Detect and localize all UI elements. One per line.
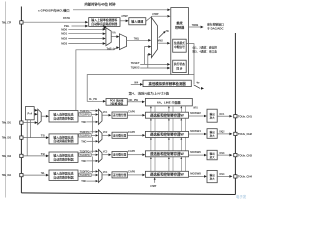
wire TGDFPO row4 [91, 174, 95, 176]
box output amp row3 [207, 150, 217, 160]
mux A1 input select [38, 109, 42, 124]
stub wire under row4 driver [154, 177, 156, 183]
svg-text:TINL_CTP: TINL_CTP [2, 20, 11, 24]
wire MD0 to mux M1 [68, 28, 102, 30]
svg-text:MD0: MD0 [61, 27, 67, 31]
svg-text:TINx_CH4: TINx_CH4 [2, 173, 11, 177]
svg-text:差分微分器: 差分微分器 [113, 153, 126, 157]
svg-text:递选板和控制寄存器W: 递选板和控制寄存器W [150, 132, 185, 137]
svg-text:VA: VA [112, 30, 115, 34]
mux M2 [119, 34, 126, 50]
svg-text:CAP6: CAP6 [128, 110, 135, 114]
box POS [106, 99, 127, 106]
svg-text:于 DAC/ADC: 于 DAC/ADC [207, 27, 223, 31]
box U7 exec status [173, 60, 187, 72]
svg-text:控制器: 控制器 [175, 24, 185, 29]
svg-text:输出: 输出 [210, 130, 216, 134]
box U2 input rate [129, 18, 146, 25]
wire U5 to serial interface [189, 26, 201, 28]
wire PBL to detector U1 [72, 25, 86, 27]
left frame line [5, 2, 7, 198]
svg-text:TB: TB [41, 134, 45, 138]
wire MD3 to mux M1 [68, 43, 102, 45]
branch TESET up to mux M3 [145, 47, 149, 65]
wire mux B1 to diff box [102, 114, 108, 116]
svg-text:MW2: MW2 [158, 39, 163, 43]
branch TQMSG up to mux M3 [147, 54, 150, 68]
wire MD1 to mux M1 [68, 33, 102, 35]
adjust arrow lower [194, 85, 201, 89]
wire driver to output row3 [189, 154, 204, 156]
box P source [25, 107, 34, 120]
wire TQMSG to control box [140, 67, 167, 69]
wire V1 P box to row3 [26, 120, 28, 156]
wire TGDFPO row2 [91, 134, 95, 136]
svg-text:输出: 输出 [210, 151, 216, 155]
svg-text:s GPIO/SPI与MCU接口: s GPIO/SPI与MCU接口 [38, 7, 70, 12]
wire POS to LINE box [127, 101, 142, 103]
adjust arrow into U1 [105, 27, 110, 31]
wire output to pin row4 [217, 175, 229, 177]
svg-text:VC2: VC2 [103, 130, 108, 134]
box U1 sample-rate detector [89, 18, 120, 27]
wire TSDFPO row4 [90, 170, 95, 172]
wire P to mux A1 top [33, 109, 36, 111]
box differential row2 [112, 132, 127, 138]
svg-text:TESET: TESET [131, 61, 140, 65]
svg-text:TNC: TNC [81, 159, 86, 163]
svg-text:TGDFPO: TGDFPO [80, 153, 91, 157]
pin TOUx_CH4 [234, 175, 237, 178]
svg-text:自动旁路控制器: 自动旁路控制器 [53, 157, 73, 162]
svg-text:自动静音旁路控制器: 自动静音旁路控制器 [91, 21, 117, 26]
wire TNC row4 [87, 180, 96, 182]
box driver register row1 [145, 112, 188, 118]
svg-text:放大: 放大 [209, 155, 216, 159]
wire TGDFPO row3 [91, 154, 95, 156]
svg-text:MD3: MD3 [61, 42, 67, 46]
svg-text:TGDFPO: TGDFPO [80, 133, 91, 137]
svg-text:MD2: MD2 [61, 37, 67, 41]
svg-text:OS4: OS4 [219, 172, 224, 176]
box output amp row1 [207, 109, 217, 122]
box output amp row2 [207, 129, 217, 139]
bus verticals between driver rows [150, 106, 152, 112]
svg-text:ATMP: ATMP [152, 12, 159, 16]
wire stub down from node [193, 75, 195, 84]
svg-text:TOUx_CH3: TOUx_CH3 [238, 153, 252, 157]
wire mux B2 to diff box [102, 134, 108, 136]
svg-text:RSTB: RSTB [63, 16, 70, 20]
wire diff to driver row2 [127, 134, 142, 136]
svg-text:CAP8: CAP8 [128, 169, 135, 173]
svg-text:TBL: TBL [41, 171, 45, 175]
svg-text:差分微分器: 差分微分器 [113, 133, 126, 137]
svg-text:电子发: 电子发 [236, 194, 247, 199]
box selector row4 [49, 170, 78, 180]
right output bus [234, 33, 236, 195]
mux B4 [98, 170, 102, 183]
svg-text:递选板和控制寄存器W: 递选板和控制寄存器W [150, 151, 185, 156]
svg-text:MOSW2: MOSW2 [190, 111, 201, 115]
bottom bus wire [21, 193, 235, 195]
wire diff to driver row3 [127, 154, 142, 156]
svg-text:ATMP: ATMP [121, 14, 128, 18]
wire mux B3 to diff box [102, 154, 108, 156]
svg-text:TINx_CH2: TINx_CH2 [2, 136, 11, 140]
svg-text:MD1: MD1 [61, 32, 67, 36]
box differential row3 [112, 152, 127, 158]
svg-text:6A、LINE 介面器: 6A、LINE 介面器 [157, 100, 182, 105]
mux B3 [98, 149, 102, 162]
svg-text:内部时钟与40位 时钟: 内部时钟与40位 时钟 [85, 2, 117, 7]
wire TGDFPO row1 [91, 114, 95, 116]
arrow into detector D1 [131, 83, 140, 85]
wire M2 to M3 [127, 39, 149, 41]
svg-text:VC4: VC4 [103, 170, 108, 174]
boxed label TGDFPO row3 [79, 153, 91, 157]
svg-text:TINx_CH1: TINx_CH1 [2, 121, 11, 125]
svg-text:TOUx_CH1: TOUx_CH1 [238, 114, 252, 118]
svg-text:差分微分器: 差分微分器 [113, 173, 126, 177]
svg-text:自动旁路控制器: 自动旁路控制器 [53, 116, 73, 121]
svg-text:TNC: TNC [81, 120, 86, 124]
mux M3 [151, 17, 157, 57]
svg-text:7W: 7W [166, 29, 169, 33]
box U5 trigger controller [171, 8, 189, 75]
svg-text:TGDFPO: TGDFPO [80, 173, 91, 177]
svg-text:同 步: 同 步 [176, 66, 182, 70]
wire driver to output row2 [189, 133, 204, 135]
wire pin row4 to selector [23, 174, 46, 176]
svg-text:放大: 放大 [209, 133, 216, 137]
svg-text:W01: W01 [193, 106, 198, 110]
wire TINL_CTP to detector U1 [23, 21, 85, 23]
svg-text:差分微分器: 差分微分器 [113, 113, 126, 117]
wire TESET to control box [140, 63, 167, 65]
wire output to pin row1 [217, 115, 229, 117]
svg-text:信息模式: 信息模式 [174, 41, 185, 45]
svg-text:递选板和控制寄存器W: 递选板和控制寄存器W [150, 172, 185, 177]
box driver register row4 [145, 171, 188, 177]
wire TNC row2 [87, 140, 96, 142]
wire driver to output row4 [189, 175, 204, 177]
svg-text:第4、消除4成为上N寸2值: 第4、消除4成为上N寸2值 [129, 92, 170, 96]
svg-text:CAP6: CAP6 [128, 130, 135, 134]
svg-text:自动旁路控制器: 自动旁路控制器 [53, 138, 73, 143]
wire M3 to register box U6 [158, 42, 167, 44]
wire mux B4 to diff box [102, 174, 108, 176]
wire MD2 to mux M1 [68, 38, 102, 40]
box output amp row4 [207, 170, 217, 182]
adjust arrow across M3 [159, 32, 164, 37]
svg-text:制3、4通道：串口态: 制3、4通道：串口态 [193, 50, 218, 54]
box D2 LINE interface [145, 98, 192, 106]
box selector row2 [49, 134, 78, 144]
svg-text:输出: 输出 [210, 112, 216, 116]
svg-text:CAP6: CAP6 [128, 149, 135, 153]
svg-text:TQMSG: TQMSG [131, 66, 140, 70]
wire diff to driver row1 [127, 114, 142, 116]
wire P to mux A1 mid [33, 113, 36, 115]
pin TOUx_CH1 [234, 115, 237, 118]
svg-text:TB: TB [41, 152, 45, 156]
svg-text:递选板和控制寄存器W: 递选板和控制寄存器W [150, 112, 185, 117]
svg-text:DIQ2: DIQ2 [219, 130, 224, 134]
svg-text:中断信号: 中断信号 [174, 45, 185, 49]
wire TSDFPO row1 [90, 110, 95, 112]
svg-text:MOSW6: MOSW6 [190, 150, 201, 154]
mux M1 [106, 28, 111, 46]
box D1 sample freq detector [143, 80, 191, 86]
svg-text:TMQ: TMQ [134, 36, 140, 40]
svg-text:W4: W4 [134, 81, 138, 85]
wire U2 to control box U5 [146, 16, 167, 21]
boxed label TGDFPO row1 [79, 113, 91, 117]
svg-text:输入调速: 输入调速 [131, 19, 143, 24]
box U6 info mode register [173, 39, 187, 52]
mux B1 [98, 109, 102, 124]
svg-text:2值/模-模值: 2值/模-模值 [110, 101, 123, 105]
wire TNC row1 [87, 121, 96, 123]
wire A1 to selector box [41, 115, 46, 117]
svg-text:TINx_CH3: TINx_CH3 [2, 154, 11, 158]
svg-text:TGDFPO: TGDFPO [80, 113, 91, 117]
wire feedback from selector A1 up to mux M2 [76, 48, 117, 111]
wire V2 P box to row2 [30, 120, 32, 138]
box selector row3 [49, 152, 78, 162]
wire M1 to M2 [111, 36, 116, 38]
svg-text:输出: 输出 [210, 173, 216, 177]
svg-text:TOUx_CH2: TOUx_CH2 [238, 132, 252, 136]
svg-text:TNC: TNC [81, 139, 86, 143]
box driver register row2 [145, 131, 188, 137]
svg-text:TMDB: TMDB [192, 23, 199, 27]
svg-text:似1、2通道：姿态控: 似1、2通道：姿态控 [192, 45, 218, 49]
svg-text:OS3: OS3 [219, 151, 224, 155]
svg-text:OL_PW: OL_PW [89, 97, 97, 101]
svg-text:TNC: TNC [81, 179, 86, 183]
wire U1 to U2 [120, 20, 125, 22]
svg-text:自动旁路控制器: 自动旁路控制器 [53, 175, 73, 180]
chain wire boxed labels rows [92, 116, 94, 133]
wire TSDFPO row2 [90, 131, 95, 133]
box differential row1 [112, 112, 127, 118]
box selector row1 [49, 111, 78, 123]
svg-text:OC1: OC1 [219, 112, 224, 116]
wire TSDFPO row3 [90, 150, 95, 152]
svg-text:VC1: VC1 [103, 110, 108, 114]
svg-text:放大: 放大 [209, 176, 216, 180]
svg-text:MOSW4: MOSW4 [190, 129, 201, 133]
svg-text:VC3: VC3 [103, 150, 108, 154]
wire driver to output row1 [189, 115, 204, 117]
svg-text:放大: 放大 [209, 116, 216, 120]
wire pin to mux A1 [23, 122, 35, 124]
svg-text:MOSW8: MOSW8 [190, 172, 201, 176]
wire GPIO to control box U5 [73, 9, 167, 11]
wire pin row3 to selector [23, 155, 46, 157]
svg-text:执行状态: 执行状态 [174, 62, 185, 66]
wire pin row2 to selector [23, 137, 46, 139]
left input bus [20, 7, 22, 193]
wire diff to driver row4 [127, 174, 142, 176]
svg-text:P≈4: P≈4 [27, 111, 32, 115]
box driver register row3 [145, 151, 188, 157]
wire output to pin row2 [217, 133, 229, 135]
pin TOUx_CH2 [234, 132, 237, 135]
pin TOUx_CH3 [234, 153, 237, 156]
wire output to pin row3 [217, 154, 229, 156]
box differential row4 [112, 172, 127, 178]
svg-text:高低模拟采样频率检测器: 高低模拟采样频率检测器 [148, 81, 186, 86]
wire TNC row3 [87, 160, 96, 162]
mux B2 [98, 130, 102, 143]
boxed label TGDFPO row2 [79, 134, 91, 138]
boxed label TGDFPO row4 [79, 173, 91, 177]
wire U6 loop right-down-left to POS box [87, 44, 194, 102]
svg-text:ATMP: ATMP [150, 184, 156, 188]
svg-text:TOUx_CH4: TOUx_CH4 [238, 175, 252, 179]
